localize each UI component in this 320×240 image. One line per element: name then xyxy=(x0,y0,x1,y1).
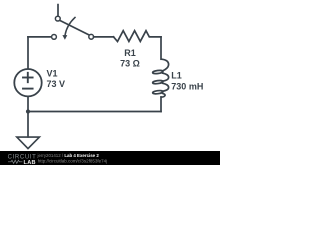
switch SW blade xyxy=(60,21,89,35)
switch SW motion arrow xyxy=(62,17,75,39)
voltage source V1 circle xyxy=(14,69,41,96)
wire L1 bottom vertical xyxy=(160,97,162,112)
wire top-right vertical (resistor corner to L1) xyxy=(160,37,162,59)
switch SW right contact circle xyxy=(89,34,94,39)
wire top-left horizontal (source to switch) xyxy=(28,36,52,38)
svg-text:L1: L1 xyxy=(171,71,182,81)
svg-text:http://circuitlab.com/c/3s2f85: http://circuitlab.com/c/3s2f853fe74j xyxy=(38,159,107,164)
wire switch to resistor xyxy=(94,36,114,38)
ground symbol xyxy=(17,137,40,149)
wire V1 bottom vertical xyxy=(27,97,29,112)
node junction dot (V1 bottom / rail / ground) xyxy=(26,109,30,113)
wire bottom rail xyxy=(28,111,161,113)
wire left vertical (corner to V1 top) xyxy=(27,37,29,69)
svg-text:R1: R1 xyxy=(124,48,136,58)
svg-text:73 V: 73 V xyxy=(47,79,66,89)
svg-text:jerry201412 / Lab 4 Exercise 2: jerry201412 / Lab 4 Exercise 2 xyxy=(37,153,100,158)
voltage source V1 plus sign xyxy=(23,73,33,82)
svg-text:LAB: LAB xyxy=(24,160,36,165)
switch SW top terminal stub xyxy=(57,5,59,16)
footer logo resistor squiggle xyxy=(8,160,22,163)
svg-text:730 mH: 730 mH xyxy=(171,82,203,92)
resistor R1 zigzag xyxy=(114,31,162,42)
footer bar xyxy=(0,151,220,165)
svg-text:V1: V1 xyxy=(47,69,58,79)
wire ground stub xyxy=(27,112,29,137)
voltage source V1 minus sign xyxy=(23,88,33,90)
switch SW left contact circle xyxy=(52,34,57,39)
switch SW pivot circle xyxy=(55,16,60,21)
svg-text:73 Ω: 73 Ω xyxy=(120,58,140,68)
inductor L1 coil xyxy=(152,59,168,97)
